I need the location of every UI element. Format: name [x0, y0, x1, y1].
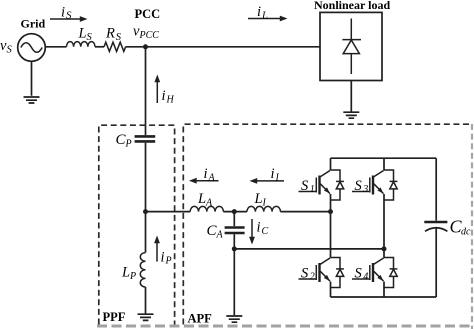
ground (LP) [138, 314, 154, 320]
inductor LI [247, 206, 280, 211]
svg-text:P: P [125, 139, 132, 150]
bridge bottom rail [331, 296, 437, 298]
wire source to LS [45, 46, 66, 48]
svg-text:PCC: PCC [135, 7, 161, 21]
svg-text:3: 3 [362, 184, 368, 195]
inductor LS [67, 42, 95, 47]
svg-text:Nonlinear load: Nonlinear load [314, 0, 390, 12]
wire CP to node A [145, 143, 147, 212]
svg-text:1: 1 [310, 184, 315, 195]
wire node B to CA [233, 212, 235, 227]
current arrow iI [257, 180, 285, 182]
svg-text:S: S [301, 178, 309, 194]
svg-text:APF: APF [188, 312, 213, 326]
wire LS to RS [95, 46, 104, 48]
wire node C to bridge right leg [234, 248, 384, 250]
wire LP to ground [145, 287, 147, 314]
current arrow iA [196, 180, 219, 182]
ground (nonlinear load) [343, 112, 359, 118]
capacitor CA [225, 226, 245, 229]
svg-text:L: L [121, 265, 130, 281]
capacitor Cdc [424, 221, 447, 223]
bridge left leg middle [330, 194, 332, 258]
current arrow iL [248, 18, 281, 20]
wire node A to LA [146, 211, 191, 213]
ac source Grid vS [18, 34, 46, 62]
ground (CA branch) [226, 316, 242, 322]
node E junction (right leg midpoint) [382, 246, 387, 251]
wire LI to bridge left leg [280, 211, 330, 213]
bridge right leg upper [383, 158, 385, 170]
inductor LP [140, 253, 145, 287]
svg-text:R: R [105, 26, 115, 42]
svg-text:L: L [261, 10, 268, 21]
svg-text:S: S [116, 32, 122, 43]
svg-text:i: i [257, 220, 261, 236]
node B junction [232, 209, 237, 214]
svg-text:PPF: PPF [103, 310, 126, 324]
PPF dashed box [99, 125, 175, 324]
current arrow iC [251, 219, 253, 238]
svg-text:P: P [165, 256, 172, 267]
svg-text:S: S [66, 10, 72, 22]
svg-text:A: A [205, 198, 213, 209]
svg-text:S: S [87, 32, 93, 43]
svg-text:A: A [216, 230, 224, 241]
wire node C to ground [233, 249, 235, 315]
svg-text:PCC: PCC [139, 30, 160, 41]
svg-text:i: i [257, 4, 261, 20]
svg-text:Grid: Grid [21, 17, 46, 31]
inductor LA [190, 206, 223, 211]
IGBT S3 [352, 170, 397, 200]
wire load box to ground [350, 81, 352, 112]
svg-text:L: L [197, 191, 206, 207]
bridge right leg lower [383, 282, 385, 298]
current arrow iP [156, 242, 158, 262]
wire Cdc to bottom rail [435, 229, 437, 298]
bridge right leg middle [383, 194, 385, 258]
bridge top rail [331, 157, 437, 159]
wire LA to node B [223, 211, 247, 213]
svg-text:dc: dc [461, 227, 471, 238]
svg-text:i: i [162, 88, 166, 104]
svg-text:i: i [204, 166, 208, 182]
current arrow iS [50, 18, 81, 20]
node D junction (left leg midpoint) [328, 209, 333, 214]
svg-text:H: H [166, 95, 175, 106]
ground (grid source) [24, 61, 40, 103]
svg-text:i: i [61, 5, 65, 21]
nonlinear load box [320, 12, 382, 80]
svg-text:2: 2 [310, 271, 315, 282]
node PCC [143, 44, 148, 49]
node C junction [232, 246, 237, 251]
IGBT S4 [352, 258, 397, 288]
diode (nonlinear load) [342, 19, 361, 75]
svg-text:C: C [262, 226, 269, 237]
capacitor CP [135, 135, 156, 138]
wire node A to LP [145, 212, 147, 253]
wire top rail to Cdc [435, 158, 437, 220]
svg-text:S: S [355, 178, 363, 194]
svg-text:i: i [271, 166, 275, 182]
wire PCC down (iH wire) [145, 47, 147, 135]
svg-text:I: I [262, 198, 267, 209]
svg-text:S: S [301, 265, 309, 281]
svg-text:P: P [129, 271, 136, 282]
svg-text:S: S [7, 45, 13, 56]
IGBT S1 [299, 170, 344, 200]
node A junction [143, 209, 148, 214]
svg-text:L: L [78, 26, 87, 42]
current arrow iH [156, 82, 158, 104]
IGBT S2 [299, 258, 344, 288]
bridge left leg lower [330, 282, 332, 298]
svg-text:L: L [254, 191, 263, 207]
svg-text:4: 4 [363, 271, 368, 282]
svg-text:A: A [208, 173, 216, 184]
resistor RS [104, 42, 126, 51]
bridge left leg upper [330, 158, 332, 170]
APF dashed box [183, 124, 470, 324]
svg-text:S: S [355, 265, 363, 281]
wire RS to load box [126, 46, 320, 48]
svg-text:I: I [275, 173, 280, 184]
svg-text:i: i [161, 250, 165, 266]
PPF and APF bottom dashed border [97, 325, 474, 328]
wire CA to node C [233, 234, 235, 249]
